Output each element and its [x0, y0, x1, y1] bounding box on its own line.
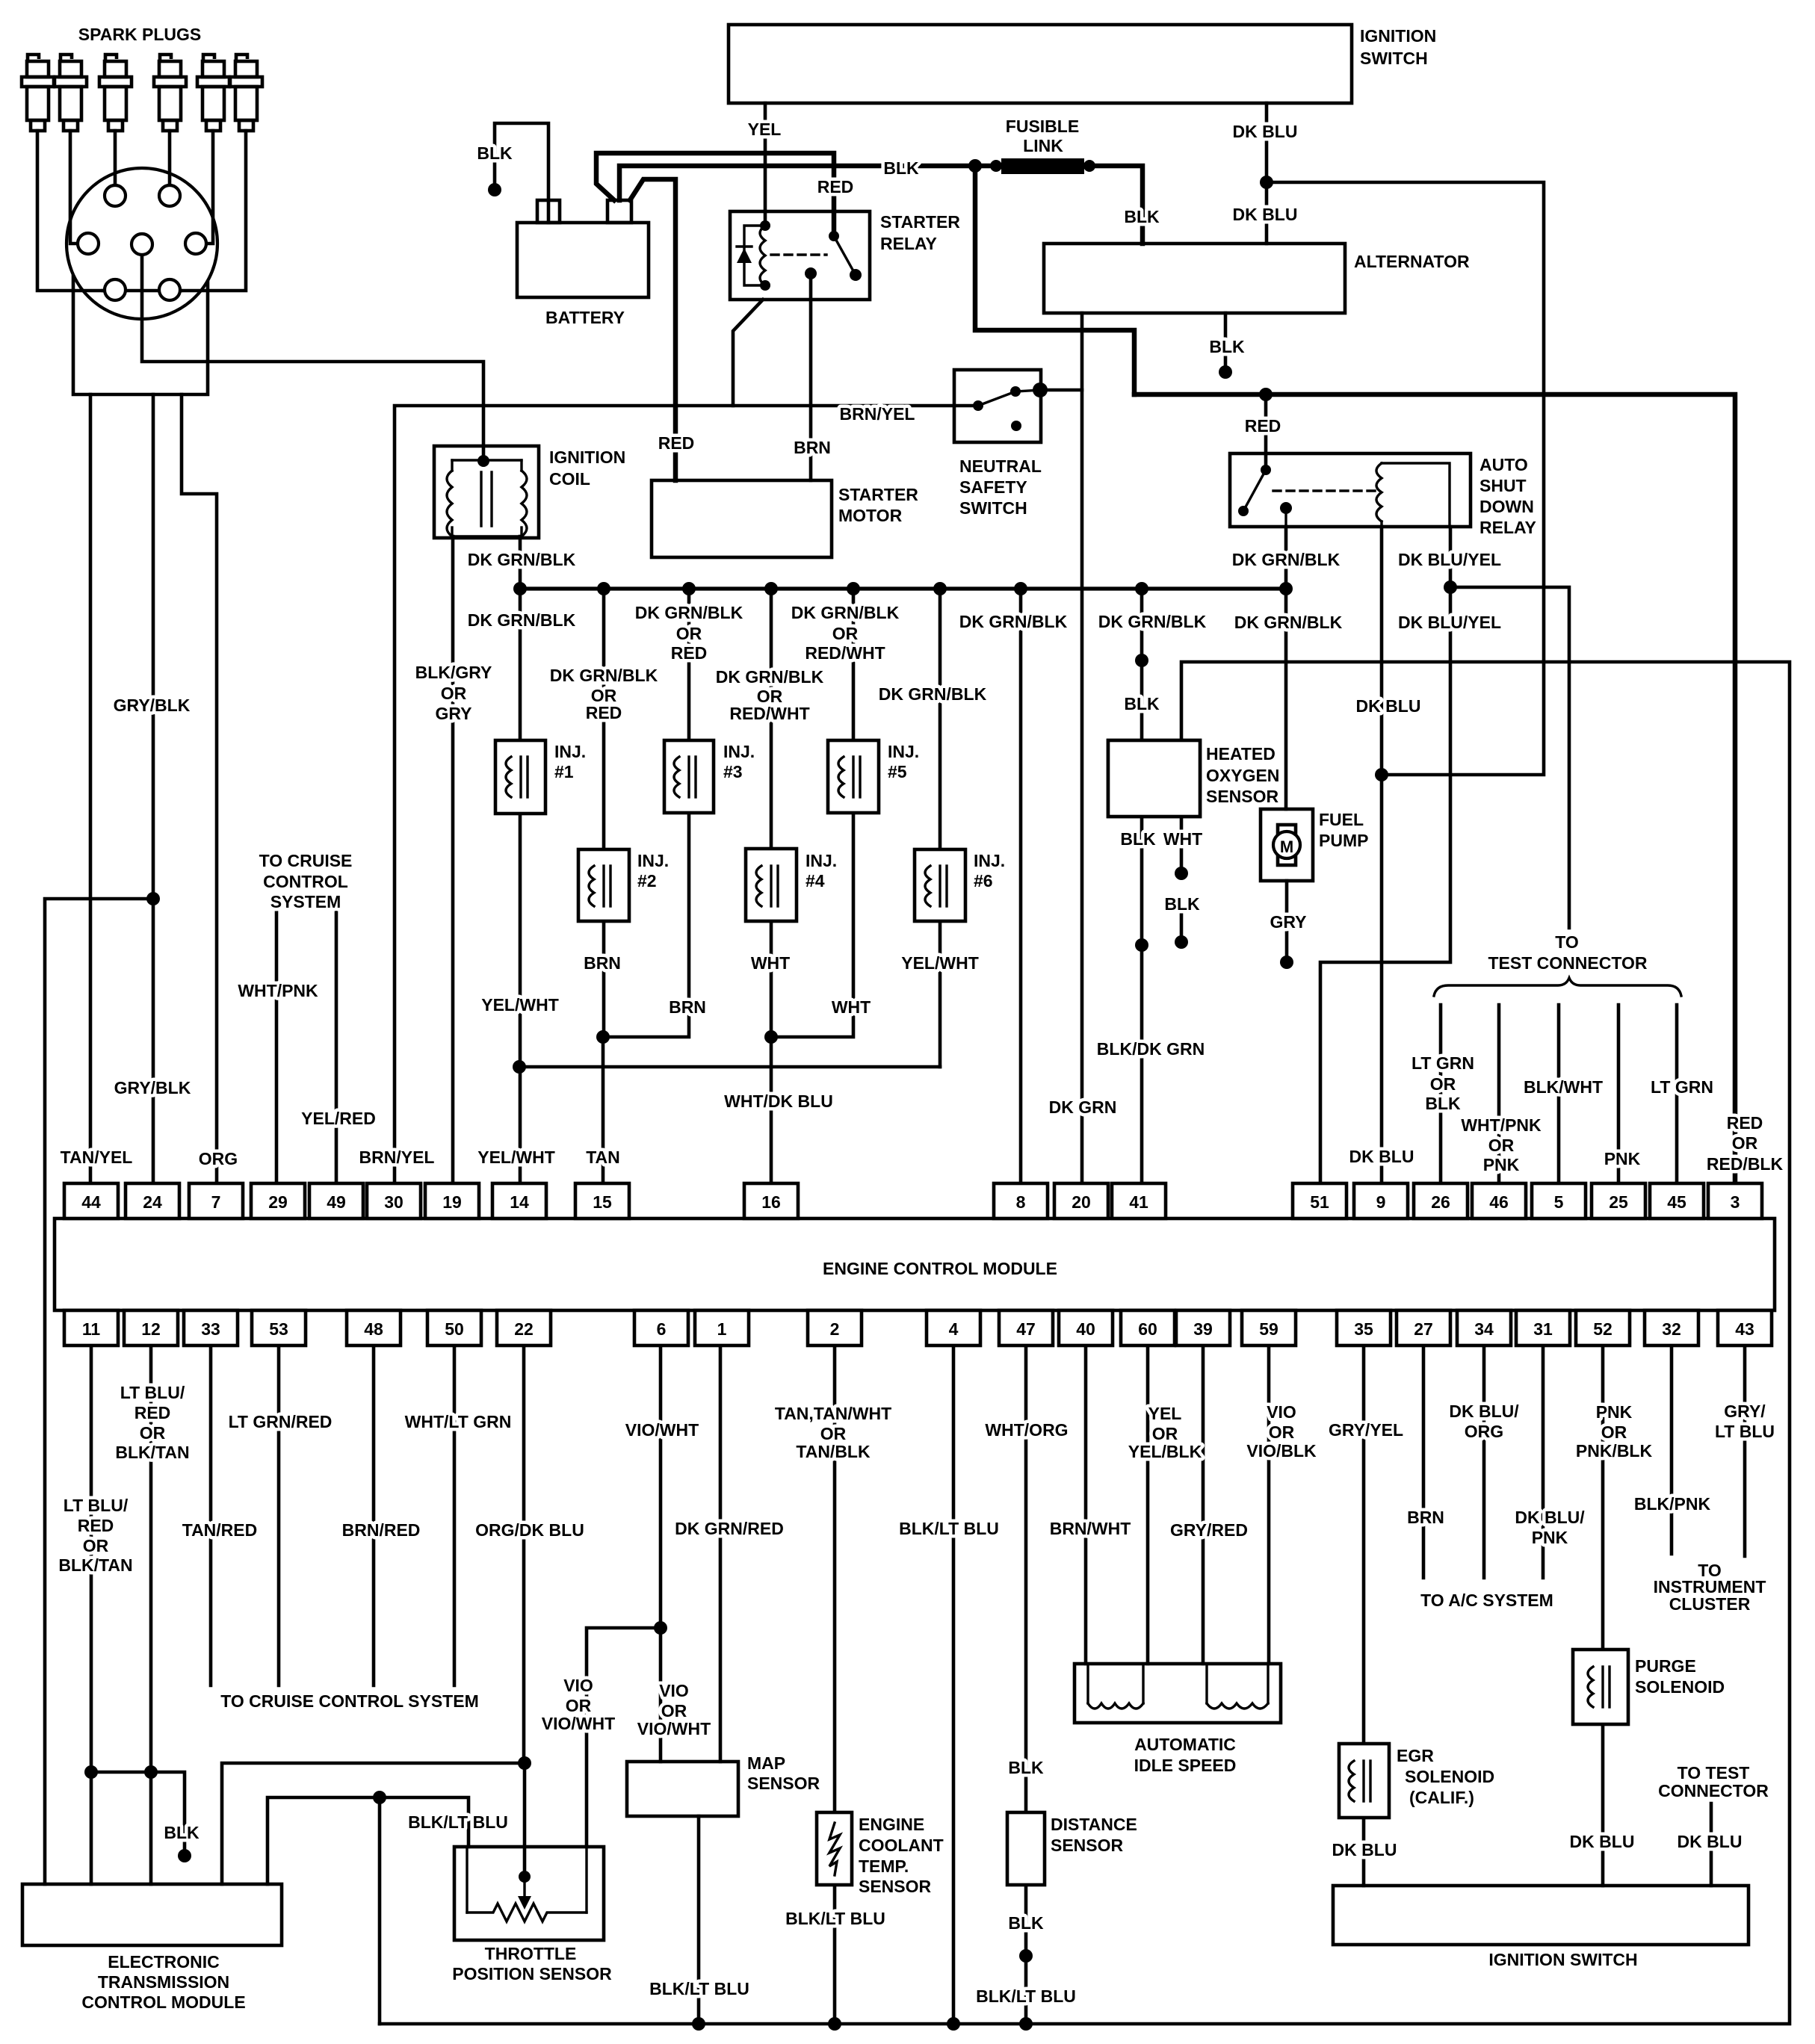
svg-text:WHT/LT GRN: WHT/LT GRN	[405, 1412, 512, 1431]
svg-text:RED/WHT: RED/WHT	[805, 643, 885, 663]
svg-text:INJ.: INJ.	[806, 851, 837, 870]
svg-text:26: 26	[1431, 1192, 1450, 1212]
neutral safety switch arm	[973, 400, 983, 411]
svg-text:#5: #5	[888, 762, 907, 781]
svg-text:59: 59	[1259, 1319, 1278, 1339]
svg-text:DOWN: DOWN	[1479, 497, 1534, 516]
ignition coil secondary winding	[522, 471, 527, 536]
wire bus to injector 5 WHT merge	[771, 589, 853, 1037]
svg-text:14: 14	[510, 1192, 529, 1212]
wire ECM pin 43 GRY/LT BLU to instrument cluster	[1743, 1345, 1747, 1556]
svg-text:AUTO: AUTO	[1479, 455, 1528, 474]
svg-text:BLK/TAN: BLK/TAN	[115, 1443, 189, 1462]
injector bus junction dots	[513, 582, 527, 595]
wire starter relay coil bottom to BRN/YEL line	[733, 300, 763, 406]
distributor port top-left	[105, 185, 126, 206]
ground dot fuel pump GRY	[1280, 956, 1293, 969]
wires test connector brace to ECM pins 26 46 5 25 45	[1439, 1005, 1443, 1183]
wire ECM pin 27 BRN to A/C system	[1422, 1345, 1426, 1578]
wire distributor center port to ignition coil	[142, 255, 483, 461]
ECM bottom pin boxes	[64, 1310, 1772, 1345]
wire ECM pin 4 BLK/LT BLU to return line	[952, 1345, 956, 2024]
ASD relay switch contact	[1261, 465, 1271, 475]
starter relay dashed actuator line	[771, 253, 826, 255]
svg-text:NEUTRAL: NEUTRAL	[959, 456, 1042, 476]
svg-text:THROTTLE: THROTTLE	[485, 1944, 577, 1963]
starter motor box	[652, 480, 832, 557]
svg-text:BLK/PNK: BLK/PNK	[1634, 1494, 1711, 1514]
svg-text:#6: #6	[974, 871, 993, 891]
wire ECM pin 33 to cruise control TAN/RED	[209, 1345, 213, 1685]
alternator box	[1044, 244, 1345, 313]
svg-text:BLK: BLK	[1164, 894, 1200, 914]
junction dot DK BLU pin 9 net	[1375, 768, 1388, 781]
svg-text:WHT/DK BLU: WHT/DK BLU	[724, 1091, 833, 1111]
svg-text:BRN: BRN	[584, 953, 621, 973]
junction dot injectors 4+5 merge	[764, 1030, 778, 1044]
svg-text:DK BLU/: DK BLU/	[1515, 1508, 1585, 1527]
svg-text:45: 45	[1667, 1192, 1686, 1212]
svg-text:GRY/YEL: GRY/YEL	[1329, 1420, 1403, 1440]
svg-text:VIO: VIO	[659, 1681, 689, 1700]
svg-text:2: 2	[830, 1319, 840, 1339]
svg-text:SAFETY: SAFETY	[959, 477, 1027, 497]
dot on distance sensor ground wire	[1019, 1949, 1033, 1963]
svg-text:OR: OR	[1430, 1074, 1456, 1094]
wire across distributor bottom ports	[103, 289, 181, 293]
spark plug 6	[230, 55, 262, 131]
junction dot oxygen sensor BLK	[1135, 654, 1148, 667]
svg-text:19: 19	[442, 1192, 462, 1212]
wire oxygen sensor WHT stub to ground	[1180, 817, 1184, 873]
svg-text:BLK/LT BLU: BLK/LT BLU	[785, 1909, 885, 1928]
svg-text:33: 33	[201, 1319, 220, 1339]
wire battery positive BLK feed to fusible link	[619, 166, 998, 200]
svg-text:40: 40	[1076, 1319, 1095, 1339]
svg-text:DK BLU: DK BLU	[1233, 205, 1298, 224]
svg-text:BLK: BLK	[1425, 1094, 1461, 1113]
ground dot oxygen sensor WHT	[1175, 867, 1188, 880]
svg-text:12: 12	[141, 1319, 161, 1339]
svg-text:DK GRN/BLK: DK GRN/BLK	[959, 612, 1068, 631]
svg-text:BLK/LT BLU: BLK/LT BLU	[899, 1519, 999, 1538]
pin numbers top row	[81, 1192, 1740, 1212]
svg-text:DK BLU: DK BLU	[1349, 1147, 1414, 1166]
svg-text:SENSOR: SENSOR	[747, 1774, 820, 1793]
wire ECM pin 12 to ETCM	[149, 1345, 153, 1884]
wire bus to auto shut down relay contact DK GRN/BLK	[1284, 527, 1288, 589]
svg-text:CLUSTER: CLUSTER	[1669, 1594, 1751, 1614]
svg-text:INJ.: INJ.	[888, 742, 919, 761]
svg-text:31: 31	[1533, 1319, 1553, 1339]
ASD relay output terminal	[1280, 502, 1292, 514]
wire starter relay output BRN to starter motor	[809, 273, 813, 480]
svg-text:SENSOR: SENSOR	[1206, 787, 1279, 806]
svg-text:DK GRN/BLK: DK GRN/BLK	[791, 603, 900, 622]
svg-text:DK BLU: DK BLU	[1356, 696, 1421, 716]
svg-text:BLK/LT BLU: BLK/LT BLU	[976, 1986, 1076, 2006]
svg-text:BLK: BLK	[1120, 829, 1156, 849]
wire bus to injector 2 and merge	[602, 589, 606, 1037]
svg-text:DK BLU: DK BLU	[1678, 1832, 1743, 1851]
wire spark plug 1 to distributor bottom-left port	[37, 131, 103, 291]
junction dot TPS wiper / pin 22	[518, 1756, 531, 1770]
svg-text:TEST CONNECTOR: TEST CONNECTOR	[1488, 953, 1648, 973]
starter relay switch arm	[834, 236, 856, 275]
wire ECM pin 11 to ETCM	[90, 1345, 93, 1884]
svg-text:9: 9	[1376, 1192, 1386, 1212]
svg-text:LT GRN: LT GRN	[1651, 1077, 1713, 1097]
svg-text:BRN/YEL: BRN/YEL	[359, 1148, 435, 1167]
svg-text:BRN/YEL: BRN/YEL	[840, 404, 915, 424]
svg-text:GRY/: GRY/	[1724, 1402, 1766, 1421]
svg-text:BLK: BLK	[477, 143, 513, 163]
distributor cap circle	[67, 168, 217, 319]
ignition switch (bottom) box	[1333, 1886, 1748, 1945]
ignition coil primary winding	[447, 471, 452, 536]
spark plug 5	[197, 55, 229, 131]
svg-text:TO A/C SYSTEM: TO A/C SYSTEM	[1420, 1591, 1553, 1610]
wire ECM pin 53 to cruise control LT GRN/RED	[277, 1345, 281, 1685]
junction dot BLK/LT BLU return	[373, 1791, 386, 1804]
wire RED tap to auto shut down relay	[1264, 394, 1268, 470]
svg-text:OR: OR	[1488, 1136, 1515, 1155]
heated oxygen sensor box (mask)	[1108, 740, 1200, 817]
svg-text:4: 4	[949, 1319, 959, 1339]
distributor port center	[132, 234, 152, 255]
svg-text:MAP: MAP	[747, 1753, 785, 1773]
wire DK BLU/YEL branch to test connector drop	[1450, 587, 1569, 928]
svg-text:IDLE SPEED: IDLE SPEED	[1134, 1756, 1237, 1775]
svg-text:ENGINE: ENGINE	[859, 1815, 924, 1834]
svg-text:DK GRN/BLK: DK GRN/BLK	[468, 550, 576, 569]
svg-text:ORG: ORG	[1465, 1422, 1503, 1441]
wire DK GRN alternator to ECM pin 20	[1080, 313, 1084, 1183]
wire ECM pin 52 PNK to purge solenoid to ignition switch	[1601, 1345, 1605, 1886]
svg-text:COOLANT: COOLANT	[859, 1836, 944, 1855]
wire ECM pin 22 ORG/DK BLU to TPS wiper	[522, 1345, 526, 1763]
ECM top pin boxes	[64, 1183, 1762, 1218]
svg-text:RED: RED	[586, 703, 622, 722]
svg-text:YEL/WHT: YEL/WHT	[481, 995, 559, 1015]
wire battery positive RED to starter motor	[630, 179, 675, 480]
injector INJ #4	[746, 849, 797, 921]
wire MAP sensor output BLK/LT BLU to return line	[697, 1816, 701, 2024]
svg-text:ORG: ORG	[199, 1149, 238, 1168]
svg-text:TO CRUISE: TO CRUISE	[259, 851, 353, 870]
battery box	[517, 223, 649, 297]
junction dot power line RED tap	[1259, 388, 1273, 401]
svg-text:TO CRUISE CONTROL SYSTEM: TO CRUISE CONTROL SYSTEM	[220, 1691, 478, 1711]
svg-text:YEL: YEL	[748, 120, 782, 139]
wire ignition coil left BLK/GRY to ECM pin 19	[451, 536, 455, 1183]
svg-text:POSITION SENSOR: POSITION SENSOR	[452, 1964, 612, 1983]
wire BRN/YEL neutral safety switch to ECM pin 30	[395, 406, 978, 1183]
svg-text:39: 39	[1193, 1319, 1213, 1339]
junction dot DK BLU ignition switch	[1260, 176, 1273, 189]
svg-text:DK GRN/BLK: DK GRN/BLK	[468, 610, 576, 630]
svg-text:50: 50	[445, 1319, 464, 1339]
svg-text:DK GRN/BLK: DK GRN/BLK	[635, 603, 743, 622]
starter relay diode loop	[744, 226, 765, 285]
wire ECM pin 35 GRY/YEL to EGR solenoid to ignition switch	[1362, 1345, 1366, 1886]
svg-text:AUTOMATIC: AUTOMATIC	[1134, 1735, 1236, 1754]
svg-text:20: 20	[1072, 1192, 1091, 1212]
svg-text:SPARK PLUGS: SPARK PLUGS	[78, 25, 201, 44]
junction dot below oxygen sensor	[1135, 938, 1148, 952]
svg-text:BLK/DK GRN: BLK/DK GRN	[1097, 1039, 1205, 1059]
starter relay output terminal	[805, 267, 817, 279]
svg-text:DK BLU: DK BLU	[1233, 122, 1298, 141]
svg-text:LT BLU/: LT BLU/	[120, 1383, 185, 1402]
map sensor box	[627, 1762, 738, 1816]
wire ECM pin 34 DK BLU/ORG to A/C system	[1482, 1345, 1486, 1578]
svg-text:LT GRN/RED: LT GRN/RED	[229, 1412, 333, 1431]
wire branch to electronic transmission control module	[45, 899, 153, 1884]
svg-text:DK BLU: DK BLU	[1332, 1840, 1397, 1859]
svg-text:27: 27	[1414, 1319, 1433, 1339]
svg-text:WHT/PNK: WHT/PNK	[1461, 1115, 1542, 1135]
ignition coil core bars	[480, 472, 482, 526]
neutral safety switch lower contact	[1011, 421, 1021, 431]
fuel pump box	[1261, 809, 1313, 881]
starter relay coil terminals	[760, 220, 770, 231]
distributor port middle-left	[78, 233, 99, 254]
auto shut down relay box	[1230, 453, 1471, 527]
main power line to pin 3 RED	[1134, 394, 1735, 1183]
svg-text:INJ.: INJ.	[554, 742, 586, 761]
svg-text:YEL: YEL	[1148, 1404, 1182, 1423]
fusible link element	[1001, 158, 1084, 174]
wire TPS wiper into sensor	[523, 1763, 527, 1879]
junction dot GRY/BLK branch	[146, 892, 160, 905]
svg-text:24: 24	[143, 1192, 162, 1212]
svg-text:OR: OR	[1732, 1133, 1758, 1153]
injector INJ #5	[828, 740, 879, 813]
svg-text:BLK/LT BLU: BLK/LT BLU	[649, 1979, 749, 1998]
svg-text:RELAY: RELAY	[1479, 518, 1536, 537]
svg-text:DISTANCE: DISTANCE	[1051, 1815, 1137, 1834]
svg-text:YEL/BLK: YEL/BLK	[1128, 1442, 1202, 1461]
wire pin 11/12 ground bridge with BLK stub	[91, 1772, 185, 1856]
spark plug 2	[55, 55, 87, 131]
svg-text:SYSTEM: SYSTEM	[270, 892, 341, 911]
svg-text:TEMP.: TEMP.	[859, 1856, 909, 1876]
wire injector 2+3 merge to ECM pin 15 TAN	[602, 1037, 605, 1183]
svg-text:SOLENOID: SOLENOID	[1405, 1767, 1494, 1786]
wire bus to injector 6 YEL/WHT	[939, 589, 942, 1067]
svg-text:PURGE: PURGE	[1635, 1656, 1696, 1676]
wire ECM pin 48 to cruise control BRN/RED	[372, 1345, 376, 1685]
wire spark plug 2 to distributor middle-left port	[70, 131, 78, 244]
svg-text:CONNECTOR: CONNECTOR	[1658, 1781, 1769, 1800]
svg-text:BLK/TAN: BLK/TAN	[58, 1555, 132, 1575]
wire fuel pump to ground GRY	[1285, 881, 1289, 962]
svg-text:WHT/ORG: WHT/ORG	[985, 1420, 1068, 1440]
neutral safety switch output terminal	[1033, 383, 1048, 397]
wire DK BLU relay coil to ECM pin 9	[1380, 527, 1384, 1183]
svg-text:TAN/YEL: TAN/YEL	[61, 1148, 133, 1167]
svg-text:BRN: BRN	[794, 438, 831, 457]
svg-text:FUEL: FUEL	[1319, 810, 1364, 829]
wire ECM pin 50 to cruise control WHT/LT GRN	[453, 1345, 457, 1685]
svg-text:OR: OR	[1269, 1422, 1295, 1442]
svg-text:OR: OR	[820, 1424, 847, 1443]
wire spark plug 6 to distributor bottom-right port	[181, 131, 246, 291]
sensor return line junction dots	[692, 2017, 705, 2031]
svg-text:#2: #2	[637, 871, 657, 891]
junction dots ETCM ground bridge	[84, 1765, 98, 1779]
svg-text:RED: RED	[671, 643, 708, 663]
svg-text:35: 35	[1354, 1319, 1373, 1339]
electronic transmission control module box	[22, 1884, 282, 1945]
junction dot DK BLU/YEL	[1444, 580, 1457, 594]
coolant temp sensor thermistor	[829, 1823, 840, 1875]
svg-text:OR: OR	[1152, 1424, 1178, 1443]
svg-text:48: 48	[364, 1319, 383, 1339]
svg-text:YEL/WHT: YEL/WHT	[477, 1148, 555, 1167]
svg-text:LT GRN: LT GRN	[1412, 1053, 1474, 1073]
svg-text:BLK/GRY: BLK/GRY	[415, 663, 492, 682]
fusible link output wire to alternator BLK	[1087, 166, 1143, 244]
svg-text:BRN: BRN	[669, 997, 706, 1017]
svg-text:VIO/BLK: VIO/BLK	[1246, 1441, 1317, 1461]
starter relay switch contact	[829, 231, 839, 241]
wire ECM pin 1 DK GRN/RED to MAP sensor	[719, 1345, 723, 1762]
svg-text:#1: #1	[554, 762, 574, 781]
svg-text:GRY/RED: GRY/RED	[1170, 1520, 1248, 1540]
svg-text:RED/BLK: RED/BLK	[1707, 1154, 1784, 1174]
engine control module box	[55, 1218, 1775, 1310]
fuel pump motor circle	[1273, 825, 1300, 865]
svg-text:DK GRN/BLK: DK GRN/BLK	[1098, 612, 1207, 631]
injector feed bus DK GRN/BLK	[520, 586, 1286, 590]
svg-text:WHT: WHT	[751, 953, 790, 973]
svg-text:BATTERY: BATTERY	[545, 308, 625, 327]
wire ignition coil right DK GRN/BLK to injector bus	[519, 536, 522, 589]
wire neutral safety switch to DK GRN line	[1040, 388, 1082, 392]
wire DK BLU branch to pin 9 net	[1267, 182, 1544, 775]
battery negative post	[537, 200, 560, 223]
svg-text:DK GRN: DK GRN	[1049, 1097, 1117, 1117]
svg-text:BLK/WHT: BLK/WHT	[1524, 1077, 1603, 1097]
svg-text:52: 52	[1593, 1319, 1613, 1339]
svg-text:OR: OR	[1601, 1422, 1627, 1442]
neutral safety switch box	[954, 370, 1041, 442]
spark plug 1	[22, 55, 54, 131]
wire spark plug 3 to distributor top-left port	[114, 131, 117, 185]
svg-text:VIO/WHT: VIO/WHT	[625, 1420, 699, 1440]
svg-text:DK GRN/BLK: DK GRN/BLK	[716, 667, 824, 687]
svg-text:BLK: BLK	[883, 158, 919, 178]
svg-text:OR: OR	[566, 1696, 592, 1715]
svg-text:HEATED: HEATED	[1206, 744, 1276, 764]
svg-text:SHUT: SHUT	[1479, 476, 1527, 495]
svg-text:DK BLU/YEL: DK BLU/YEL	[1398, 550, 1501, 569]
injector INJ #6	[915, 849, 965, 921]
svg-text:BLK: BLK	[164, 1823, 200, 1842]
svg-text:YEL/RED: YEL/RED	[301, 1109, 376, 1128]
ground dot BLK stub	[178, 1849, 191, 1862]
ground dot oxygen sensor BLK	[1175, 935, 1188, 949]
svg-text:RED: RED	[658, 433, 695, 453]
wire YEL ignition switch to starter relay coil	[764, 103, 767, 226]
svg-text:TRANSMISSION: TRANSMISSION	[98, 1972, 229, 1992]
ignition coil box	[434, 446, 539, 538]
distributor port bottom-right	[159, 279, 180, 300]
EGR solenoid	[1339, 1744, 1389, 1818]
distance sensor box	[1007, 1812, 1045, 1885]
svg-text:TO TEST: TO TEST	[1678, 1763, 1750, 1783]
svg-text:M: M	[1280, 837, 1293, 856]
svg-text:1: 1	[717, 1319, 727, 1339]
wire bus to injector 3 BRN	[603, 589, 689, 1037]
wire spark plug 4 to distributor top-right port	[168, 131, 172, 185]
svg-text:VIO: VIO	[1267, 1402, 1296, 1422]
svg-text:SOLENOID: SOLENOID	[1635, 1677, 1725, 1697]
svg-text:OR: OR	[83, 1536, 109, 1555]
wire ECM pin 47 to distance sensor to return	[1024, 1345, 1028, 2024]
svg-text:DK GRN/RED: DK GRN/RED	[675, 1519, 784, 1538]
wire ECM pin 59 VIO to AIS	[1267, 1345, 1271, 1664]
starter relay coil	[760, 226, 765, 285]
svg-text:DK GRN/BLK: DK GRN/BLK	[1234, 613, 1343, 632]
junction dot VIO pin 6 branch	[654, 1621, 667, 1635]
wire bus to injector 1 and ECM pin 14 YEL/WHT	[519, 589, 522, 1183]
svg-text:STARTER: STARTER	[838, 485, 918, 504]
AIS motor windings	[1088, 1664, 1268, 1709]
svg-text:LT BLU/: LT BLU/	[64, 1496, 129, 1515]
svg-text:#3: #3	[723, 762, 743, 781]
TPS potentiometer	[467, 1847, 587, 1921]
battery positive post	[607, 200, 631, 223]
svg-text:DK GRN/BLK: DK GRN/BLK	[550, 666, 658, 685]
spark plug 3	[99, 55, 132, 131]
svg-text:VIO/WHT: VIO/WHT	[637, 1719, 711, 1738]
wire alternator to ground BLK	[1224, 313, 1228, 372]
svg-text:RELAY: RELAY	[880, 234, 937, 253]
svg-text:BLK: BLK	[1209, 337, 1245, 356]
svg-text:PNK/BLK: PNK/BLK	[1576, 1441, 1653, 1461]
svg-text:BLK: BLK	[1124, 694, 1160, 713]
svg-text:ELECTRONIC: ELECTRONIC	[108, 1952, 220, 1972]
ASD relay dashed actuator line	[1273, 489, 1375, 492]
ground dot battery BLK	[488, 183, 501, 196]
svg-text:RED: RED	[1727, 1113, 1763, 1133]
wire distributor GRY/BLK to ECM pin 24	[152, 394, 155, 1183]
wire ECM pin 60 YEL to AIS	[1146, 1345, 1150, 1664]
svg-text:ORG/DK BLU: ORG/DK BLU	[475, 1520, 584, 1540]
svg-text:OR: OR	[140, 1423, 166, 1443]
svg-text:BLK: BLK	[1008, 1758, 1044, 1777]
wire spark plug 5 to distributor middle-right port	[206, 131, 213, 244]
svg-text:BRN/RED: BRN/RED	[342, 1520, 421, 1540]
ignition switch (top) box	[729, 25, 1352, 103]
wire injectors 1+6 merge line	[519, 1065, 940, 1069]
svg-text:LT BLU: LT BLU	[1715, 1422, 1775, 1441]
svg-text:RED/WHT: RED/WHT	[729, 704, 809, 723]
svg-text:COIL: COIL	[549, 469, 590, 489]
wire TPS right VIO to pin 6 net	[587, 1628, 661, 1847]
wire DK BLU ignition switch to alternator	[1265, 103, 1269, 244]
automatic idle speed box	[1075, 1664, 1281, 1723]
junction dot injectors 2+3 merge	[596, 1030, 610, 1044]
wire battery positive to starter relay switch RED	[596, 153, 834, 236]
svg-text:CONTROL: CONTROL	[263, 872, 348, 891]
wire DK BLU/YEL relay coil to ECM pin 51	[1320, 527, 1450, 1183]
starter relay diode	[737, 248, 752, 263]
wire test connector DK BLU to ignition switch	[1710, 1803, 1713, 1886]
